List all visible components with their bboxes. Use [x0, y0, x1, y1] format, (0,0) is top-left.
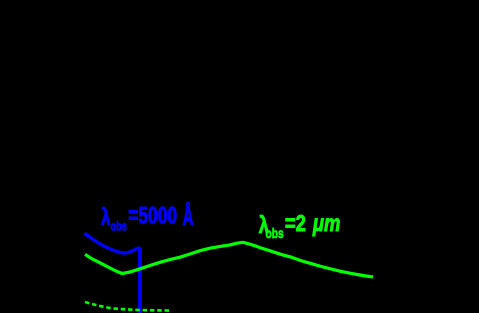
label green mu m [312, 211, 340, 236]
curve green lambda_obs=2um [85, 242, 373, 277]
svg-text:obs: obs [111, 220, 127, 234]
label blue lambda [101, 205, 110, 230]
label blue obs subscript [111, 220, 127, 234]
curve blue lambda_obs=5000A [85, 233, 140, 253]
svg-text:=5000: =5000 [128, 202, 177, 230]
label blue =5000 [128, 202, 177, 230]
svg-text:μm: μm [312, 211, 340, 236]
vertical blue drop [138, 247, 142, 313]
svg-text:λ: λ [101, 205, 110, 230]
label green obs subscript [266, 226, 285, 242]
svg-text:obs: obs [266, 226, 285, 242]
label green =2 [285, 211, 306, 236]
svg-text:Å: Å [183, 199, 194, 231]
dashed green line [85, 302, 171, 311]
label blue Angstrom [183, 199, 194, 231]
label green lambda [259, 210, 269, 238]
svg-text:=2: =2 [285, 211, 306, 236]
